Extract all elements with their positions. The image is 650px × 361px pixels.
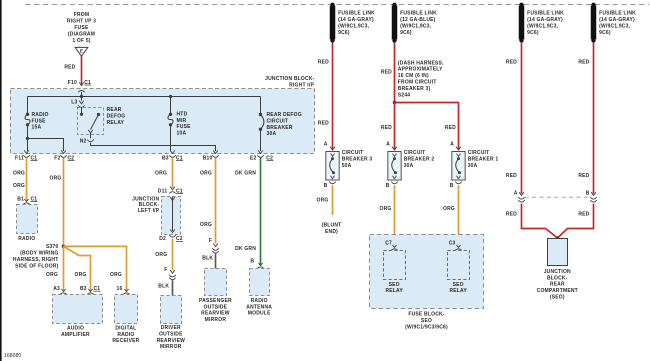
svg-text:REAR: REAR bbox=[550, 282, 565, 288]
svg-text:F: F bbox=[209, 238, 212, 244]
svg-text:RIGHT I/P: RIGHT I/P bbox=[289, 82, 314, 88]
fuse HTD MIR FUSE 10A bbox=[168, 112, 191, 137]
off-page connector triangle E bbox=[75, 47, 88, 56]
svg-text:F11: F11 bbox=[15, 155, 24, 161]
wire BLK to passenger mirror bbox=[202, 254, 215, 269]
wire RED S244 to circuit breaker 1 bbox=[395, 103, 459, 150]
wire RED fusible link 1 to circuit breaker 3 bbox=[318, 43, 333, 150]
svg-text:AMPLIFIER: AMPLIFIER bbox=[61, 332, 90, 338]
svg-text:RADIO: RADIO bbox=[117, 332, 134, 338]
svg-text:RED: RED bbox=[506, 59, 517, 65]
fuse RADIO FUSE 15A bbox=[25, 112, 49, 131]
svg-text:LEFT I/P: LEFT I/P bbox=[138, 208, 160, 214]
junction block rear compartment box bbox=[548, 236, 568, 265]
wire RED feed from triangle to F10 bbox=[64, 56, 81, 85]
svg-text:(W/9C1/9C3/9C6): (W/9C1/9C3/9C6) bbox=[405, 324, 448, 330]
fusible link 4 (14 GA-GRAY) bbox=[591, 3, 636, 43]
wire bus to L3 bbox=[81, 97, 83, 101]
svg-text:10A: 10A bbox=[177, 131, 187, 137]
wire ORG D2 to connector F bbox=[155, 239, 172, 270]
relay input terminal bbox=[80, 108, 83, 116]
svg-text:ORG: ORG bbox=[155, 252, 167, 258]
svg-text:CIRCUIT: CIRCUIT bbox=[342, 150, 364, 156]
svg-text:A: A bbox=[324, 141, 328, 147]
wire relay output to N2 bbox=[90, 133, 92, 138]
connector pin B antenna module bbox=[250, 258, 263, 268]
pin A circuit breaker 3 bbox=[324, 141, 335, 150]
circuit breaker 2 30A bbox=[386, 150, 435, 189]
wire bus to HTD MIR fuse bbox=[169, 95, 172, 113]
SEO relay 1 box bbox=[384, 251, 406, 295]
svg-text:F: F bbox=[164, 267, 167, 273]
svg-text:ORG: ORG bbox=[155, 171, 167, 177]
wire ORG S370 to amplifier A3 bbox=[46, 246, 64, 291]
connector pin E2 C2 bbox=[250, 150, 273, 161]
svg-text:RED: RED bbox=[381, 69, 392, 75]
SEO relay 2 box bbox=[448, 251, 470, 295]
svg-text:CIRCUIT: CIRCUIT bbox=[267, 119, 289, 125]
svg-text:S370: S370 bbox=[46, 244, 58, 250]
svg-text:RED: RED bbox=[506, 211, 517, 217]
bus wire inside junction block bbox=[28, 96, 261, 98]
junction block - left I/P box bbox=[162, 197, 181, 235]
svg-text:RADIO: RADIO bbox=[18, 236, 35, 242]
svg-text:RELAY: RELAY bbox=[385, 288, 403, 294]
svg-text:RED: RED bbox=[318, 59, 329, 65]
wire ORG F11 to radio B1 bbox=[13, 158, 27, 202]
svg-text:ORG: ORG bbox=[13, 171, 25, 177]
svg-text:CIRCUIT: CIRCUIT bbox=[468, 150, 490, 156]
svg-text:REAR: REAR bbox=[107, 107, 122, 113]
svg-text:9C6): 9C6) bbox=[338, 30, 350, 36]
svg-text:ORG: ORG bbox=[380, 206, 392, 212]
label junction block rear compartment SEO bbox=[537, 269, 578, 301]
pin A circuit breaker 1 bbox=[450, 141, 461, 150]
label fuse block SEO bbox=[405, 312, 448, 331]
feed label: from right I/P 3 fuse bbox=[67, 12, 96, 44]
svg-text:ORG: ORG bbox=[50, 176, 62, 182]
connector pin B10 bbox=[203, 150, 219, 161]
wire RED fusible link 3 to connector A bbox=[506, 43, 522, 194]
svg-text:B10: B10 bbox=[203, 155, 213, 161]
svg-text:RECEIVER: RECEIVER bbox=[112, 338, 139, 344]
svg-text:BLOCK-: BLOCK- bbox=[547, 275, 568, 281]
wire through left I/P block bbox=[170, 197, 175, 233]
svg-text:RELAY: RELAY bbox=[449, 288, 467, 294]
connector pin A3 on amplifier bbox=[53, 286, 66, 294]
svg-text:ORG: ORG bbox=[200, 222, 212, 228]
wire RED S244 to circuit breaker 2 bbox=[381, 103, 395, 150]
svg-text:FUSE: FUSE bbox=[32, 118, 47, 124]
svg-text:MIR: MIR bbox=[177, 118, 187, 124]
circuit breaker 3 50A bbox=[324, 150, 373, 189]
svg-text:(14 GA-GRAY): (14 GA-GRAY) bbox=[527, 17, 563, 23]
svg-text:RIGHT I/P 3: RIGHT I/P 3 bbox=[67, 18, 96, 24]
svg-text:15A: 15A bbox=[32, 125, 42, 131]
svg-text:A: A bbox=[450, 141, 454, 147]
svg-text:(BODY WIRING: (BODY WIRING bbox=[20, 251, 58, 257]
wire ORG circuit breaker 3 blunt end bbox=[317, 185, 342, 235]
svg-text:OUTSIDE: OUTSIDE bbox=[204, 304, 228, 310]
fusible link 3 (14 GA-GRAY) bbox=[519, 3, 564, 43]
connector pin F11 C1 bbox=[15, 150, 37, 161]
svg-text:C3: C3 bbox=[449, 240, 456, 246]
connector pin 16 on receiver bbox=[117, 286, 130, 294]
svg-text:CIRCUIT: CIRCUIT bbox=[404, 150, 426, 156]
component box DRIVER OUTSIDE REARVIEW MIRROR bbox=[157, 296, 186, 351]
svg-text:BLK: BLK bbox=[158, 283, 169, 289]
svg-text:30A: 30A bbox=[468, 163, 478, 169]
svg-text:OUTSIDE: OUTSIDE bbox=[159, 331, 183, 337]
svg-text:RED: RED bbox=[318, 121, 329, 127]
svg-text:MIRROR: MIRROR bbox=[205, 317, 227, 323]
svg-text:ORG: ORG bbox=[317, 198, 329, 204]
svg-text:B: B bbox=[386, 183, 390, 189]
svg-text:9C6): 9C6) bbox=[400, 30, 412, 36]
component box RADIO ANTENNA MODULE bbox=[246, 269, 272, 317]
svg-text:BREAKER 3): BREAKER 3) bbox=[398, 86, 431, 92]
label junction block - right I/P bbox=[265, 76, 315, 88]
wire ORG circuit breaker 2 to C7 bbox=[380, 185, 395, 247]
svg-text:JUNCTION: JUNCTION bbox=[544, 269, 571, 275]
rear defog relay box bbox=[78, 108, 104, 135]
svg-text:COMPARTMENT: COMPARTMENT bbox=[537, 288, 578, 294]
svg-text:SEO: SEO bbox=[453, 282, 464, 288]
wire RED fusible link 4 to connector B bbox=[578, 43, 593, 194]
wire ORG B3 to D11 bbox=[155, 158, 173, 188]
svg-text:E: E bbox=[80, 48, 84, 54]
wire radio fuse to F11 exit bbox=[26, 125, 29, 151]
connector pin F10 C1 bbox=[68, 80, 91, 92]
svg-text:(DASH HARNESS,: (DASH HARNESS, bbox=[398, 60, 444, 66]
svg-text:APPROXIMATELY: APPROXIMATELY bbox=[398, 67, 443, 73]
svg-text:(W/9C1,9C3,: (W/9C1,9C3, bbox=[400, 24, 432, 30]
wire ORG F2 to S370 bbox=[50, 158, 64, 247]
svg-text:MODULE: MODULE bbox=[248, 311, 271, 317]
svg-text:PASSENGER: PASSENGER bbox=[199, 298, 232, 304]
svg-text:FROM: FROM bbox=[74, 12, 90, 18]
svg-text:A3: A3 bbox=[53, 286, 60, 292]
svg-text:BREAKER: BREAKER bbox=[267, 125, 293, 131]
svg-text:16: 16 bbox=[117, 286, 123, 292]
in-line connector dashed link A-B bbox=[525, 196, 591, 198]
svg-text:(SEO): (SEO) bbox=[550, 295, 565, 301]
svg-text:BLK: BLK bbox=[202, 256, 213, 262]
wire ORG circuit breaker 1 to C3 bbox=[443, 185, 459, 247]
svg-text:RADIO: RADIO bbox=[251, 298, 268, 304]
component box AUDIO AMPLIFIER bbox=[53, 295, 103, 338]
svg-text:(BLUNT: (BLUNT bbox=[322, 223, 342, 229]
svg-text:168080: 168080 bbox=[4, 353, 21, 359]
svg-text:RED: RED bbox=[578, 59, 589, 65]
connector pin C7 bbox=[385, 240, 397, 250]
fusible link 2 (12 GA-BLUE) bbox=[392, 3, 437, 43]
svg-text:C7: C7 bbox=[385, 240, 392, 246]
svg-text:9C6): 9C6) bbox=[527, 30, 539, 36]
svg-text:RED: RED bbox=[381, 125, 392, 131]
svg-text:(DIAGRAM: (DIAGRAM bbox=[68, 31, 95, 37]
svg-text:RELAY: RELAY bbox=[107, 120, 125, 126]
svg-text:HARNESS, RIGHT: HARNESS, RIGHT bbox=[13, 257, 59, 263]
svg-text:RADIO: RADIO bbox=[32, 112, 49, 118]
svg-text:B3: B3 bbox=[80, 286, 87, 292]
wire RED connector A to junction block rear bbox=[506, 204, 558, 238]
svg-text:F10: F10 bbox=[68, 80, 77, 86]
svg-text:(14 GA-GRAY): (14 GA-GRAY) bbox=[599, 17, 635, 23]
svg-text:DK GRN: DK GRN bbox=[235, 246, 256, 252]
svg-text:9C6): 9C6) bbox=[599, 30, 611, 36]
svg-text:D2: D2 bbox=[159, 236, 166, 242]
svg-text:50A: 50A bbox=[342, 163, 352, 169]
connector pin F driver mirror bbox=[164, 267, 175, 280]
splice S244 with harness note bbox=[393, 60, 444, 104]
wire breaker to E2 exit bbox=[260, 129, 262, 151]
svg-text:DEFOG: DEFOG bbox=[107, 114, 126, 120]
svg-text:DK GRN: DK GRN bbox=[235, 171, 256, 177]
connector pin B rear bbox=[586, 190, 597, 202]
circuit breaker REAR DEFOG 30A bbox=[259, 112, 302, 137]
wire bus to rear defog circuit breaker bbox=[260, 97, 262, 114]
svg-text:16 CM (6 IN): 16 CM (6 IN) bbox=[398, 73, 429, 79]
svg-text:B: B bbox=[324, 183, 328, 189]
svg-text:B1: B1 bbox=[17, 196, 24, 202]
svg-text:RED: RED bbox=[64, 64, 75, 70]
connector pin D2 C2 bbox=[159, 235, 183, 242]
svg-text:S244: S244 bbox=[398, 92, 410, 98]
svg-text:FUSE BLOCK-: FUSE BLOCK- bbox=[408, 312, 444, 318]
svg-text:RED: RED bbox=[578, 173, 589, 179]
svg-text:ORG: ORG bbox=[443, 206, 455, 212]
svg-text:L3: L3 bbox=[71, 99, 77, 105]
svg-text:(W/9C1,9C3,: (W/9C1,9C3, bbox=[338, 24, 370, 30]
svg-text:FUSIBLE LINK: FUSIBLE LINK bbox=[338, 11, 375, 17]
svg-text:D11: D11 bbox=[158, 188, 168, 194]
svg-text:BREAKER 1: BREAKER 1 bbox=[468, 157, 499, 163]
wire ORG S370 to amplifier B3 bbox=[64, 246, 91, 291]
svg-text:ANTENNA: ANTENNA bbox=[246, 304, 272, 310]
wire N2 to B10 exit bbox=[91, 143, 216, 151]
wire RED fusible link 2 to S244 bbox=[381, 43, 395, 103]
wire branch to F2 exit bbox=[28, 139, 64, 152]
svg-text:RED: RED bbox=[578, 211, 589, 217]
svg-text:A: A bbox=[386, 141, 390, 147]
component box PASSENGER OUTSIDE REARVIEW MIRROR bbox=[199, 269, 232, 324]
component box RADIO bbox=[17, 205, 38, 243]
svg-text:ORG: ORG bbox=[110, 272, 122, 278]
splice S370 bbox=[13, 244, 65, 269]
junction block - right I/P box bbox=[11, 89, 315, 154]
svg-text:FUSIBLE LINK: FUSIBLE LINK bbox=[599, 11, 636, 17]
wire RED connector B to junction block rear bbox=[558, 204, 594, 238]
svg-text:(W/9C1,9C3,: (W/9C1,9C3, bbox=[527, 24, 559, 30]
svg-text:REARVIEW: REARVIEW bbox=[201, 311, 230, 317]
svg-text:RED: RED bbox=[506, 173, 517, 179]
component box DIGITAL RADIO RECEIVER bbox=[112, 295, 139, 345]
diagram number 168080 bbox=[4, 353, 21, 359]
svg-text:30A: 30A bbox=[267, 131, 277, 137]
svg-text:SEO: SEO bbox=[389, 282, 400, 288]
svg-text:B: B bbox=[250, 258, 254, 264]
fuse block SEO box bbox=[370, 235, 484, 309]
svg-text:B: B bbox=[586, 190, 590, 196]
connector N2 bbox=[80, 139, 94, 145]
svg-text:AUDIO: AUDIO bbox=[67, 325, 84, 331]
svg-text:E2: E2 bbox=[250, 155, 257, 161]
svg-text:ORG: ORG bbox=[46, 272, 58, 278]
label junction block - left I/P bbox=[132, 196, 160, 214]
wire bus to radio fuse bbox=[27, 97, 29, 114]
wire HTD fuse to B3 exit bbox=[170, 125, 172, 151]
circuit breaker 1 30A bbox=[450, 150, 499, 189]
svg-text:REAR DEFOG: REAR DEFOG bbox=[267, 112, 302, 118]
svg-text:DIGITAL: DIGITAL bbox=[115, 325, 136, 331]
wire BLK to driver mirror bbox=[158, 280, 172, 295]
svg-text:N2: N2 bbox=[80, 139, 87, 145]
svg-text:FUSE: FUSE bbox=[74, 25, 89, 31]
wire ORG B10 to connector F bbox=[200, 158, 216, 244]
svg-text:B: B bbox=[450, 183, 454, 189]
connector L3 bbox=[71, 99, 84, 107]
svg-text:FROM CIRCUIT: FROM CIRCUIT bbox=[398, 80, 437, 86]
pin A circuit breaker 2 bbox=[386, 141, 397, 150]
connector pin C3 bbox=[449, 240, 462, 250]
connector pin B3 C1 on amplifier bbox=[80, 286, 100, 294]
svg-text:JUNCTION BLOCK-: JUNCTION BLOCK- bbox=[265, 76, 315, 82]
svg-text:A: A bbox=[514, 190, 518, 196]
relay switch blade bbox=[88, 113, 100, 133]
connector pin B1 C1 on radio bbox=[17, 196, 37, 204]
connector pin D11 C1 bbox=[158, 187, 183, 195]
wire DK GRN E2 to antenna module bbox=[235, 158, 260, 266]
svg-text:RED: RED bbox=[445, 125, 456, 131]
svg-text:FUSIBLE LINK: FUSIBLE LINK bbox=[527, 11, 564, 17]
connector pin F passenger mirror bbox=[209, 238, 219, 253]
svg-text:ORG: ORG bbox=[13, 183, 25, 189]
svg-text:SIDE OF FLOOR): SIDE OF FLOOR) bbox=[15, 263, 58, 269]
svg-text:REARVIEW: REARVIEW bbox=[157, 338, 186, 344]
wire ORG S370 to receiver pin 16 bbox=[64, 246, 127, 291]
svg-text:F2: F2 bbox=[54, 155, 60, 161]
label rear defog relay bbox=[107, 107, 126, 126]
connector pin B3 C1 bbox=[162, 150, 183, 161]
svg-text:(14 GA-GRAY): (14 GA-GRAY) bbox=[338, 17, 374, 23]
svg-text:30A: 30A bbox=[404, 163, 414, 169]
wire feed into junction block bus bbox=[80, 92, 83, 98]
svg-text:FUSIBLE LINK: FUSIBLE LINK bbox=[400, 11, 437, 17]
svg-text:END): END) bbox=[325, 229, 338, 235]
svg-text:(12 GA-BLUE): (12 GA-BLUE) bbox=[400, 17, 436, 23]
svg-text:BREAKER 3: BREAKER 3 bbox=[342, 157, 373, 163]
svg-text:DRIVER: DRIVER bbox=[161, 325, 181, 331]
svg-text:1 OF 5): 1 OF 5) bbox=[72, 38, 90, 44]
svg-text:HTD: HTD bbox=[177, 112, 188, 118]
svg-text:BREAKER 2: BREAKER 2 bbox=[404, 157, 435, 163]
svg-text:(W/9C1,9C3,: (W/9C1,9C3, bbox=[599, 24, 631, 30]
svg-text:ORG: ORG bbox=[200, 171, 212, 177]
svg-text:B3: B3 bbox=[162, 155, 169, 161]
svg-text:ORG: ORG bbox=[75, 272, 87, 278]
connector pin F2 C2 bbox=[54, 150, 74, 161]
fusible link 1 (14 GA-GRAY) bbox=[330, 3, 375, 43]
svg-text:FUSE: FUSE bbox=[177, 124, 192, 130]
connector pin A rear bbox=[514, 190, 525, 202]
svg-text:SEO: SEO bbox=[421, 318, 432, 324]
svg-text:MIRROR: MIRROR bbox=[160, 344, 182, 350]
